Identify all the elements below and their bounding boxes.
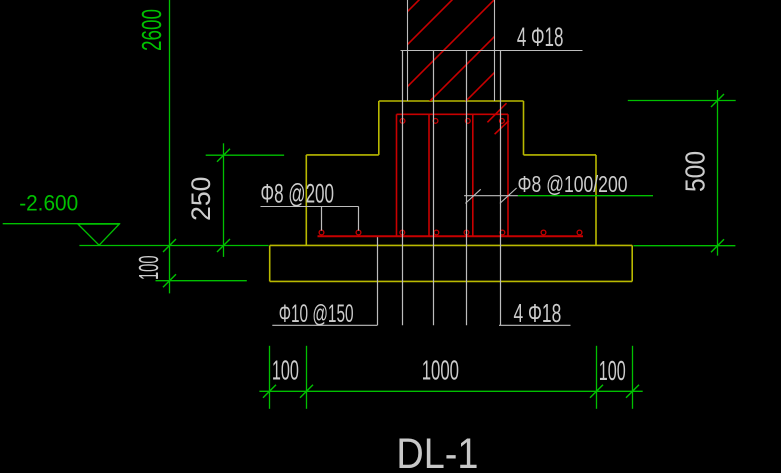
- svg-text:1000: 1000: [422, 355, 459, 386]
- svg-text:100: 100: [133, 256, 164, 281]
- svg-text:DL-1: DL-1: [396, 430, 478, 473]
- svg-text:Φ8 @200: Φ8 @200: [261, 179, 335, 209]
- svg-text:4 Φ18: 4 Φ18: [517, 22, 564, 52]
- svg-text:500: 500: [680, 151, 711, 192]
- svg-text:100: 100: [272, 355, 299, 386]
- svg-text:Φ8 @100/200: Φ8 @100/200: [518, 171, 628, 197]
- svg-text:4 Φ18: 4 Φ18: [514, 298, 562, 328]
- svg-text:250: 250: [186, 177, 216, 222]
- svg-text:2600: 2600: [136, 9, 167, 51]
- svg-text:-2.600: -2.600: [19, 191, 78, 216]
- svg-text:100: 100: [599, 355, 626, 386]
- svg-text:Φ10 @150: Φ10 @150: [279, 300, 354, 328]
